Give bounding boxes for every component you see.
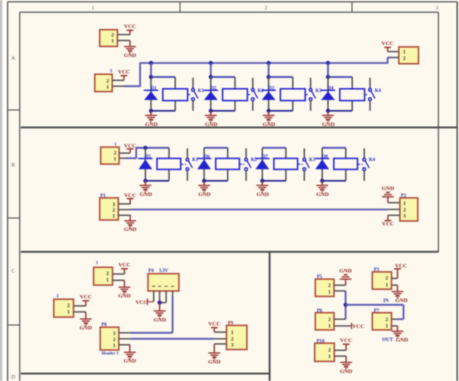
svg-text:P3: P3 xyxy=(374,268,380,273)
junction node top unit 1 xyxy=(149,75,153,79)
P10 pin 1 wire xyxy=(334,355,346,357)
label K1 xyxy=(198,89,205,94)
label K2 xyxy=(251,158,258,163)
svg-text:C: C xyxy=(11,269,15,275)
svg-text:2: 2 xyxy=(106,271,109,277)
net label 1 at J5 xyxy=(96,260,99,265)
svg-text:GND: GND xyxy=(396,338,408,344)
svg-text:VCC: VCC xyxy=(208,321,220,327)
column label 3 xyxy=(436,5,439,11)
wire P4 out to P8 pin 3 xyxy=(130,296,172,333)
wire bottom horizontal unit 8 xyxy=(322,180,346,182)
label D8 xyxy=(322,155,328,160)
relay coil K8 xyxy=(334,158,358,169)
P9 pin 3 wire xyxy=(214,343,226,345)
wire diode vertical unit 2 xyxy=(210,77,212,111)
svg-text:GND: GND xyxy=(395,298,407,304)
svg-text:GND: GND xyxy=(316,192,328,198)
svg-text:P10: P10 xyxy=(317,339,325,344)
label P5 xyxy=(317,275,323,280)
ground GND unit 1 xyxy=(145,111,158,128)
connector J5 xyxy=(94,267,113,285)
connector P6 xyxy=(315,313,334,330)
junction node bottom unit 1 xyxy=(149,109,153,113)
ground GND at P9 xyxy=(208,344,220,366)
label P8 xyxy=(101,323,107,328)
svg-text:3.3V: 3.3V xyxy=(159,269,169,274)
ground GND at P7 xyxy=(392,326,409,344)
svg-text:P5: P5 xyxy=(317,275,323,280)
label P7 xyxy=(374,309,380,314)
connector J2 left xyxy=(95,74,112,91)
power VCC at P6 pin 1 xyxy=(352,323,365,330)
P7 pin 2 stub xyxy=(392,318,398,320)
wire coil vertical unit 5 xyxy=(168,148,170,181)
junction node rail unit 5 xyxy=(143,146,147,150)
ground GND at J5 xyxy=(118,280,130,299)
wire bottom horizontal unit 3 xyxy=(269,110,293,112)
svg-text:IN: IN xyxy=(383,299,389,304)
svg-text:GND: GND xyxy=(256,192,268,198)
svg-text:1: 1 xyxy=(385,283,388,289)
svg-text:VCC: VCC xyxy=(352,324,364,330)
svg-text:P7: P7 xyxy=(374,309,380,314)
svg-text:D2: D2 xyxy=(210,87,216,92)
svg-text:P8: P8 xyxy=(101,323,107,328)
junction node rail unit 4 xyxy=(326,61,330,65)
wire rail drop unit 2 xyxy=(210,63,212,77)
power VCC at P3 xyxy=(394,264,407,279)
diode D3 xyxy=(261,90,275,100)
diode D2 xyxy=(204,90,218,100)
wire top horizontal unit 2 xyxy=(211,76,235,78)
wire diode vertical unit 8 xyxy=(321,148,323,181)
svg-text:2: 2 xyxy=(67,303,70,309)
label D7 xyxy=(262,155,268,160)
label K4 xyxy=(369,158,376,163)
label D2 xyxy=(210,87,216,92)
svg-text:P2: P2 xyxy=(401,194,407,199)
svg-text:GND: GND xyxy=(124,53,136,59)
wire coil vertical unit 2 xyxy=(234,77,236,111)
svg-text:P9: P9 xyxy=(228,321,234,326)
J5 pin 1 wire xyxy=(113,279,125,281)
svg-text:1: 1 xyxy=(106,278,109,284)
power VCC at J4 xyxy=(124,144,136,154)
power VCC at J2 xyxy=(118,69,130,80)
connector P7 xyxy=(372,313,391,330)
switch K1 contact xyxy=(188,78,198,111)
svg-text:K4: K4 xyxy=(375,89,382,94)
relay coil K5 xyxy=(157,158,181,169)
ground GND unit 6 xyxy=(198,181,211,198)
svg-text:D6: D6 xyxy=(204,155,210,160)
junction node bottom unit 5 xyxy=(143,179,147,183)
junction node P5-P6-P7 xyxy=(344,303,348,307)
ground GND at P3 xyxy=(392,285,408,304)
ground GND unit 2 xyxy=(205,111,218,128)
P5 pin 1 wire xyxy=(334,290,346,292)
svg-text:3: 3 xyxy=(403,214,406,220)
svg-text:VCC: VCC xyxy=(80,295,92,301)
svg-text:3: 3 xyxy=(436,5,439,11)
svg-text:1: 1 xyxy=(111,39,114,45)
connector P5 xyxy=(315,279,334,296)
wire top horizontal unit 1 xyxy=(151,76,175,78)
junction node bottom unit 7 xyxy=(260,179,264,183)
P2 pin 2 stub xyxy=(388,208,400,210)
P4 pin 3 wire xyxy=(160,291,167,303)
svg-text:GND: GND xyxy=(263,122,275,128)
section divider vertical xyxy=(269,252,271,381)
svg-text:GND: GND xyxy=(154,317,166,323)
label IN xyxy=(383,299,389,304)
junction node rail unit 1 xyxy=(149,61,153,65)
wire diode vertical unit 7 xyxy=(261,148,263,181)
relay coil K7 xyxy=(274,158,298,169)
ground GND unit 7 xyxy=(256,181,269,198)
svg-text:GND: GND xyxy=(145,122,157,128)
svg-text:1: 1 xyxy=(231,330,234,336)
switch K3 contact xyxy=(306,78,316,111)
diode D4 xyxy=(321,90,335,100)
svg-text:D3: D3 xyxy=(268,87,274,92)
wire bottom horizontal unit 1 xyxy=(151,110,175,112)
power VCC at P4 pin 1 xyxy=(135,299,153,307)
svg-text:2: 2 xyxy=(328,283,331,289)
P9 pin 1 wire xyxy=(214,331,226,333)
connector P2 xyxy=(400,198,418,221)
label D1 xyxy=(151,87,157,92)
svg-text:GND: GND xyxy=(322,122,334,128)
svg-text:K3: K3 xyxy=(315,89,322,94)
svg-text:VCC: VCC xyxy=(382,222,394,228)
wire top horizontal unit 7 xyxy=(262,147,286,149)
label Header 3 xyxy=(102,350,119,355)
junction node rail unit 3 xyxy=(267,61,271,65)
svg-text:2: 2 xyxy=(403,56,406,62)
svg-text:D4: D4 xyxy=(328,87,334,92)
svg-text:D8: D8 xyxy=(322,155,328,160)
svg-text:VCC: VCC xyxy=(118,69,130,75)
ground GND above P5 xyxy=(339,268,351,285)
wire bottom horizontal unit 6 xyxy=(204,180,228,182)
J5 pin 2 wire xyxy=(113,273,125,275)
wire diode vertical unit 1 xyxy=(150,77,152,111)
wire coil vertical unit 1 xyxy=(174,77,176,111)
wire diode vertical unit 6 xyxy=(203,148,205,181)
wire bottom horizontal unit 5 xyxy=(145,180,169,182)
wire P1 to P2 xyxy=(131,209,388,211)
relay coil K2 xyxy=(223,89,248,101)
wire node to P7 xyxy=(346,305,404,319)
label P3 xyxy=(374,268,380,273)
P3 pin 2 wire xyxy=(392,277,398,279)
ground GND at P4 xyxy=(154,303,167,324)
P8 pin 1 wire xyxy=(119,344,130,346)
wire coil vertical unit 4 xyxy=(351,77,353,111)
diode D5 xyxy=(138,159,152,170)
J3 pin 2 stub xyxy=(392,57,399,59)
label 3.3V xyxy=(159,269,169,274)
power VCC at P10 xyxy=(340,338,352,350)
wire J2 to rail xyxy=(124,63,140,87)
label P4 xyxy=(148,269,154,274)
svg-text:1: 1 xyxy=(113,343,116,349)
J6 pin 1 wire xyxy=(74,311,86,313)
J1 pin 2 wire xyxy=(117,34,130,36)
wire bottom horizontal unit 7 xyxy=(262,180,286,182)
power VCC at J1 xyxy=(124,24,136,34)
P8 pin 2 stub xyxy=(119,338,130,340)
connector P9 xyxy=(227,325,247,349)
svg-text:1: 1 xyxy=(67,310,70,316)
wire P5 to P6 xyxy=(345,291,347,319)
column label 1 xyxy=(92,5,95,11)
ground GND at J6 xyxy=(80,312,92,332)
row label A xyxy=(11,56,15,62)
P4 pin 1 wire xyxy=(153,291,155,302)
row label B xyxy=(11,163,15,169)
svg-text:B: B xyxy=(11,163,15,169)
P7 pin 1 wire xyxy=(392,325,398,327)
VCC rail section 1 xyxy=(140,62,388,64)
junction node bottom unit 4 xyxy=(326,109,330,113)
diode D6 xyxy=(197,159,211,170)
left window edge bar xyxy=(0,0,2,381)
diode D8 xyxy=(315,159,329,170)
wire rail drop unit 3 xyxy=(268,63,270,77)
label P1 xyxy=(100,194,106,199)
svg-text:K2: K2 xyxy=(258,89,265,94)
wire top horizontal unit 3 xyxy=(269,76,293,78)
svg-text:1: 1 xyxy=(328,290,331,296)
svg-text:VCC: VCC xyxy=(135,300,147,306)
svg-text:VCC: VCC xyxy=(340,338,352,344)
wire coil vertical unit 7 xyxy=(285,148,287,181)
svg-text:VCC: VCC xyxy=(124,24,136,30)
wire rail drop unit 4 xyxy=(327,63,329,77)
power VCC at P1 xyxy=(124,193,136,204)
junction node bottom unit 8 xyxy=(320,179,324,183)
power VCC below P2 xyxy=(382,215,394,227)
wire coil vertical unit 3 xyxy=(292,77,294,111)
regulator P4 3.3V xyxy=(148,274,179,291)
switch K2 contact xyxy=(248,78,258,111)
net label 2 at J6 xyxy=(56,293,59,298)
svg-text:2: 2 xyxy=(385,276,388,282)
label K1 xyxy=(192,158,199,163)
wire diode vertical unit 3 xyxy=(268,77,270,111)
switch K1 contact xyxy=(181,148,192,181)
switch K2 contact xyxy=(240,148,251,181)
power VCC at J3 xyxy=(382,41,394,51)
svg-text:VCC: VCC xyxy=(118,263,130,269)
relay coil K4 xyxy=(340,89,365,101)
label P2 xyxy=(401,194,407,199)
svg-text:GND: GND xyxy=(118,294,130,300)
connector P10 xyxy=(315,343,335,361)
svg-text:Header 3: Header 3 xyxy=(102,350,119,355)
wire diode vertical unit 4 xyxy=(327,77,329,111)
svg-text:1: 1 xyxy=(328,354,331,360)
svg-text:GND: GND xyxy=(340,369,352,375)
svg-text:D5: D5 xyxy=(145,155,151,160)
svg-text:GND: GND xyxy=(140,192,152,198)
svg-text:A: A xyxy=(11,56,15,62)
svg-text:D7: D7 xyxy=(262,155,268,160)
wire coil vertical unit 8 xyxy=(345,148,347,181)
row tick B-C xyxy=(8,217,20,219)
ground GND at P10 xyxy=(340,356,352,375)
connector J4 section 2 xyxy=(101,147,119,164)
svg-text:P4: P4 xyxy=(148,269,154,274)
wire rail to J3 xyxy=(388,58,392,64)
wire top horizontal unit 4 xyxy=(328,76,352,78)
svg-text:1: 1 xyxy=(106,84,109,90)
svg-text:1: 1 xyxy=(403,50,406,56)
J1 pin 1 wire xyxy=(117,40,130,42)
row label C xyxy=(11,269,15,275)
connector J1 top-left xyxy=(100,30,118,47)
svg-text:GND: GND xyxy=(124,227,136,233)
wire P8 to P9 xyxy=(130,338,214,340)
ground GND above P2 xyxy=(382,186,394,203)
ground GND unit 8 xyxy=(316,181,329,198)
ground GND at P1 xyxy=(124,215,136,233)
P5 pin 2 wire xyxy=(334,284,346,286)
row tick A-B xyxy=(8,109,20,111)
label K3 xyxy=(315,89,322,94)
svg-text:2: 2 xyxy=(265,5,268,11)
svg-text:GND: GND xyxy=(208,359,220,365)
svg-text:1: 1 xyxy=(403,201,406,207)
P1 pin 3 wire xyxy=(118,203,130,205)
P4 pin 2 wire xyxy=(159,291,161,303)
svg-text:GND: GND xyxy=(205,122,217,128)
junction node top unit 4 xyxy=(326,75,330,79)
relay coil K1 xyxy=(163,89,188,101)
net label 2 at J2 xyxy=(110,68,113,73)
svg-text:1: 1 xyxy=(385,324,388,330)
J3 pin 1 wire xyxy=(388,51,399,53)
VCC rail section 2 xyxy=(136,147,169,149)
svg-text:2: 2 xyxy=(328,317,331,323)
J2 pin 2 wire xyxy=(112,79,124,81)
net label 1 at J4 xyxy=(114,141,117,146)
power VCC at J5 xyxy=(118,263,130,274)
svg-text:D1: D1 xyxy=(151,87,157,92)
label K3 xyxy=(309,158,316,163)
label P10 xyxy=(317,339,325,344)
P2 pin 1 wire xyxy=(388,202,400,204)
svg-text:2: 2 xyxy=(328,348,331,354)
section divider 2 xyxy=(21,251,439,253)
label D4 xyxy=(328,87,334,92)
ground GND unit 3 xyxy=(263,111,276,128)
P10 pin 2 wire xyxy=(334,349,346,351)
svg-text:1: 1 xyxy=(114,157,117,163)
J6 pin 2 wire xyxy=(74,305,86,307)
column label 2 xyxy=(265,5,268,11)
wire bottom horizontal unit 4 xyxy=(328,110,352,112)
wire J4 to rail xyxy=(126,148,136,159)
P2 pin 3 wire xyxy=(388,214,400,216)
svg-text:K1: K1 xyxy=(198,89,205,94)
ground GND unit 4 xyxy=(322,111,335,128)
wire bottom horizontal unit 2 xyxy=(211,110,235,112)
row label D xyxy=(11,375,15,381)
label K4 xyxy=(375,89,382,94)
label D5 xyxy=(145,155,151,160)
connector P3 xyxy=(372,272,391,289)
row tick C-D xyxy=(8,324,20,326)
connector P8 xyxy=(100,327,119,350)
junction node bottom unit 3 xyxy=(267,109,271,113)
svg-text:1: 1 xyxy=(112,213,115,219)
svg-text:D: D xyxy=(11,375,15,381)
wire top horizontal unit 8 xyxy=(322,147,346,149)
svg-text:K3: K3 xyxy=(309,158,316,163)
diode D1 xyxy=(144,90,158,100)
connector J6 xyxy=(54,299,74,317)
J2 pin 1 stub xyxy=(112,85,124,87)
svg-text:GND: GND xyxy=(124,359,136,365)
svg-text:GND: GND xyxy=(382,186,394,192)
section divider 3 xyxy=(21,373,270,375)
junction node bottom unit 6 xyxy=(202,179,206,183)
svg-text:GND: GND xyxy=(339,268,351,274)
label D6 xyxy=(204,155,210,160)
J4 pin 2 wire xyxy=(119,152,130,154)
svg-text:P6: P6 xyxy=(317,309,323,314)
label P9 xyxy=(228,321,234,326)
junction node bottom unit 2 xyxy=(209,109,213,113)
wire diode vertical unit 5 xyxy=(144,148,146,181)
label D3 xyxy=(268,87,274,92)
label P6 xyxy=(317,309,323,314)
P6 pin 2 stub xyxy=(334,318,346,320)
relay coil K6 xyxy=(216,158,240,169)
connector P1 xyxy=(100,198,119,220)
svg-text:VCC: VCC xyxy=(382,41,394,47)
svg-text:GND: GND xyxy=(80,325,92,331)
wire rail drop unit 1 xyxy=(150,63,152,77)
ground GND at J1 xyxy=(124,41,136,60)
svg-text:GND: GND xyxy=(198,192,210,198)
switch K4 contact xyxy=(358,148,369,181)
svg-text:3: 3 xyxy=(231,343,234,349)
P3 pin 1 wire xyxy=(392,284,398,286)
ground GND unit 5 xyxy=(140,181,153,198)
junction node P4 ground xyxy=(158,301,162,305)
wire top horizontal unit 6 xyxy=(204,147,228,149)
switch K3 contact xyxy=(298,148,309,181)
J4 pin 1 stub xyxy=(119,157,126,159)
connector J3 top-right xyxy=(399,47,419,64)
relay coil K3 xyxy=(280,89,305,101)
junction node top unit 3 xyxy=(267,75,271,79)
P4 pin 4 wire xyxy=(172,291,174,296)
label OUT xyxy=(382,338,394,343)
P8 pin 3 stub xyxy=(119,332,130,334)
label K2 xyxy=(258,89,265,94)
column tick 1-2 xyxy=(179,2,181,12)
diode D7 xyxy=(255,159,269,170)
svg-text:1: 1 xyxy=(92,5,95,11)
junction node top unit 2 xyxy=(209,75,213,79)
svg-text:1: 1 xyxy=(328,324,331,330)
